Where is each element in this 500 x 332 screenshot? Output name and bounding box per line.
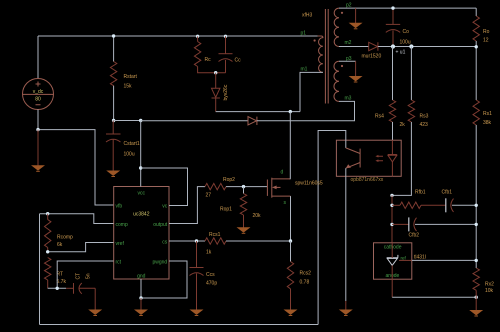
svg-text:tl431l: tl431l: [414, 255, 426, 261]
wire Rs3 bypass down: [392, 122, 411, 195]
wire snubber bottom joiner: [198, 67, 226, 73]
wire ref to divider: [412, 259, 476, 261]
opto light arrows: [378, 156, 384, 161]
node cs / Ccs: [195, 239, 198, 242]
optocoupler U2 box: [336, 140, 401, 176]
ground stem IC: [140, 298, 142, 310]
svg-text:Cfb2: Cfb2: [409, 233, 420, 239]
wire vref run: [48, 243, 114, 252]
opto LED: [391, 140, 393, 154]
wire v_dc top lead: [37, 36, 39, 79]
wire p3 stub: [339, 60, 356, 62]
wire aux rail to diode: [141, 120, 248, 122]
wire top rail: [38, 35, 318, 37]
svg-text:p2: p2: [346, 3, 352, 9]
node gnd junction: [139, 296, 142, 299]
svg-text:CT: CT: [76, 273, 82, 280]
svg-text:vref: vref: [116, 241, 125, 247]
svg-text:gnd: gnd: [137, 274, 146, 280]
wire p2 top rail: [339, 7, 476, 9]
svg-text:Rcs2: Rcs2: [300, 271, 312, 277]
wire v_dc minus to vfb: [38, 130, 114, 205]
svg-text:5n: 5n: [86, 273, 92, 279]
svg-text:m1: m1: [301, 67, 308, 73]
svg-text:v_dc: v_dc: [33, 89, 44, 95]
svg-text:p1: p1: [301, 31, 307, 37]
wire opto collector to comp net: [318, 131, 346, 325]
wire bottom rail: [40, 324, 319, 326]
wire rct run: [57, 261, 113, 288]
svg-text:27: 27: [206, 193, 212, 199]
opto phototransistor: [345, 140, 347, 148]
voltage source V1 v_dc 80: [23, 79, 54, 110]
ground stem below source: [37, 130, 39, 166]
svg-text:Rfb1: Rfb1: [415, 190, 426, 196]
wire p2 rail corner to Ro: [475, 8, 477, 16]
svg-text:2k: 2k: [400, 122, 406, 128]
svg-text:Rs1: Rs1: [483, 111, 492, 117]
wire output line: [378, 46, 476, 48]
wire Rs3 top lead: [410, 47, 412, 101]
node aux rail / vcc drop: [139, 119, 142, 122]
capacitor Cfb1: [445, 198, 447, 212]
resistor Rstart 15k: [110, 62, 116, 86]
winding p2-m2 secondary: [334, 8, 339, 46]
resistor Rcs2 0.78: [290, 241, 292, 262]
svg-text:Co: Co: [403, 29, 410, 35]
wire aux rail segment: [114, 120, 141, 122]
svg-text:10k: 10k: [485, 288, 494, 294]
svg-text:uc3842: uc3842: [133, 212, 150, 218]
svg-text:423: 423: [420, 122, 429, 128]
svg-text:+ u1: + u1: [396, 50, 406, 56]
wire fb column upper: [391, 195, 393, 242]
svg-text:vcc: vcc: [138, 191, 146, 197]
node top rail / Rc: [196, 35, 199, 38]
svg-text:470p: 470p: [206, 281, 217, 287]
ground (Rcs2): [285, 310, 296, 314]
svg-text:mur1520: mur1520: [362, 54, 382, 60]
resistor RT 5.7k: [45, 258, 51, 281]
wire Rcs1 to source: [226, 240, 291, 242]
svg-text:Ro: Ro: [483, 29, 490, 35]
ground stem Rop1: [243, 215, 245, 228]
ground stem CT: [94, 288, 96, 310]
ground (opto emitter): [340, 310, 351, 314]
svg-text:100u: 100u: [124, 152, 135, 158]
diode mur1520: [369, 42, 378, 50]
svg-text:100u: 100u: [400, 40, 411, 46]
node v_dc minus junction: [36, 128, 39, 131]
wire left feedback vertical: [39, 214, 41, 325]
node rct / CT: [56, 287, 59, 290]
wire vcc drop: [140, 121, 142, 187]
node LED cathode junction: [390, 194, 393, 197]
ground (output): [471, 311, 482, 315]
node vcc / vc tap: [139, 166, 142, 169]
transistor Q1 spw11n60s5: [266, 180, 268, 196]
wire source: [290, 196, 292, 241]
node gate / Rop1: [242, 185, 245, 188]
resistor Rcomp 6k: [47, 214, 49, 220]
wire clamp to drain node: [216, 111, 300, 113]
ground stem p3: [355, 61, 357, 76]
ground (p3): [350, 77, 361, 81]
svg-text:15k: 15k: [124, 84, 133, 90]
node drain junction: [289, 110, 292, 113]
ground (CT): [90, 310, 101, 314]
wire Rstart bottom lead: [113, 86, 115, 121]
wire Rop2 to gate: [226, 186, 267, 188]
node top rail / Rstart: [112, 34, 115, 37]
transformer core: [325, 9, 328, 104]
wire drain: [289, 112, 291, 179]
svg-text:cs: cs: [162, 240, 168, 246]
ground (p2): [350, 23, 361, 27]
resistor Rfb1: [392, 204, 400, 206]
wire cs run: [169, 240, 205, 242]
svg-text:Rstart: Rstart: [124, 74, 138, 80]
winding p3-m3 secondary: [334, 61, 339, 101]
node output / right column: [475, 45, 478, 48]
svg-text:vc: vc: [162, 204, 168, 210]
wire vc loop: [141, 168, 188, 206]
op-amp U1 uc3842 box: [114, 187, 169, 280]
node top rail / Cc: [224, 35, 227, 38]
svg-text:Rs4: Rs4: [375, 114, 384, 120]
capacitor Cstart1 100u: [112, 121, 114, 135]
svg-text:vfb: vfb: [116, 204, 123, 210]
node anode / Rx2: [475, 296, 478, 299]
ground stem Rcs2: [290, 289, 292, 310]
ground (Rop1): [238, 228, 249, 232]
resistor Rop1 20k: [243, 187, 245, 194]
tl431 symbol: [387, 255, 398, 258]
node snubber / byv26c: [214, 71, 217, 74]
ground (Cstart1): [108, 171, 119, 175]
wire anode drop: [391, 279, 393, 297]
svg-text:Rop2: Rop2: [223, 177, 235, 183]
svg-text:20k: 20k: [253, 213, 262, 219]
svg-text:Ccs: Ccs: [206, 272, 215, 278]
ground (input): [33, 166, 44, 170]
svg-text:Cstart1: Cstart1: [124, 141, 140, 147]
ground stem output: [475, 290, 477, 310]
svg-text:5.7k: 5.7k: [57, 279, 67, 285]
svg-text:Cfb1: Cfb1: [442, 190, 453, 196]
wire anode to output ground: [392, 296, 476, 298]
svg-text:opb871n667xx: opb871n667xx: [351, 177, 384, 183]
node vref / RT: [46, 250, 49, 253]
svg-text:xfH3: xfH3: [302, 13, 313, 19]
wire comp run: [40, 214, 114, 224]
ground (uc3842): [136, 310, 147, 314]
wire aux rail right to m3: [257, 101, 355, 120]
svg-text:80: 80: [35, 96, 41, 102]
node output / Co: [391, 44, 395, 48]
svg-text:Rop1: Rop1: [220, 207, 232, 213]
wire pwgnd loop: [141, 261, 187, 298]
resistor Rcs1 1k: [205, 238, 226, 244]
resistor Rx2 10k: [473, 268, 479, 290]
svg-text:6k: 6k: [57, 242, 63, 248]
svg-text:Rx2: Rx2: [485, 282, 494, 288]
svg-text:m2: m2: [345, 40, 352, 46]
svg-text:pwgnd: pwgnd: [152, 260, 167, 266]
wire v_dc bottom lead: [37, 110, 39, 130]
capacitor Cc: [225, 36, 227, 53]
ground stem p2: [355, 8, 357, 23]
wire opto emitter to ground: [345, 176, 347, 301]
winding p1-m1 primary: [318, 36, 323, 72]
capacitor Co 100u: [392, 8, 394, 24]
svg-text:ref: ref: [401, 256, 407, 261]
wire right column: [475, 125, 477, 268]
svg-text:1k: 1k: [206, 250, 212, 256]
node fb / Rfb1: [390, 204, 393, 207]
svg-text:comp: comp: [116, 222, 128, 228]
ground stem emitter: [345, 301, 347, 310]
svg-text:byv26c: byv26c: [223, 84, 229, 100]
svg-text:d: d: [281, 170, 284, 176]
wire output pin run: [169, 187, 205, 224]
wire m1 to drain node: [300, 72, 323, 111]
capacitor Ccs 470p: [196, 241, 198, 268]
wire Rs4 to LED: [392, 122, 394, 140]
node Cfb2 / right column: [475, 223, 478, 226]
resistor Rs4 2k: [389, 100, 395, 122]
node output / Rs3: [409, 44, 413, 48]
node comp / Rcomp: [46, 212, 49, 215]
capacitor Cfb2: [392, 223, 409, 225]
node aux rail / Cstart1: [112, 119, 115, 122]
node p2 rail / Co: [391, 6, 394, 9]
shunt regulator U3 tl431 box: [374, 243, 412, 279]
node fb / Cfb2: [390, 223, 393, 226]
wire Ro bottom: [475, 41, 477, 100]
capacitor CT 5n: [66, 287, 74, 289]
svg-text:cathode: cathode: [384, 245, 402, 251]
node ref / right column: [475, 259, 478, 262]
svg-text:m3: m3: [345, 96, 352, 102]
wire Rstart top lead: [113, 36, 115, 62]
svg-text:spw11n60s5: spw11n60s5: [295, 181, 323, 187]
resistor Rop2 27: [205, 183, 226, 189]
svg-text:12: 12: [483, 38, 489, 44]
wire Rs4 top lead: [392, 47, 394, 101]
svg-text:output: output: [153, 222, 168, 228]
svg-text:Rc: Rc: [205, 57, 212, 63]
resistor Rc: [197, 36, 199, 41]
wire gnd pin drop: [140, 279, 142, 298]
svg-text:rct: rct: [116, 260, 122, 266]
svg-text:Rcs1: Rcs1: [209, 232, 221, 238]
wire RT bottom row: [48, 287, 66, 289]
svg-text:Rcomp: Rcomp: [57, 235, 73, 241]
resistor Rs3 423: [408, 100, 414, 122]
svg-text:38k: 38k: [483, 120, 492, 126]
node source / Rcs2: [289, 239, 292, 242]
ground (Ccs): [191, 310, 202, 314]
svg-text:0.78: 0.78: [300, 280, 310, 286]
svg-text:Rs3: Rs3: [420, 114, 429, 120]
node Rfb1 / right column: [475, 204, 478, 207]
wire m2 to diode: [339, 46, 369, 48]
diode D_aux: [248, 117, 257, 125]
resistor Ro 12: [473, 16, 479, 41]
diode byv26c: [215, 73, 217, 89]
resistor Rs1 38k: [473, 100, 479, 125]
svg-text:Cc: Cc: [235, 58, 242, 64]
